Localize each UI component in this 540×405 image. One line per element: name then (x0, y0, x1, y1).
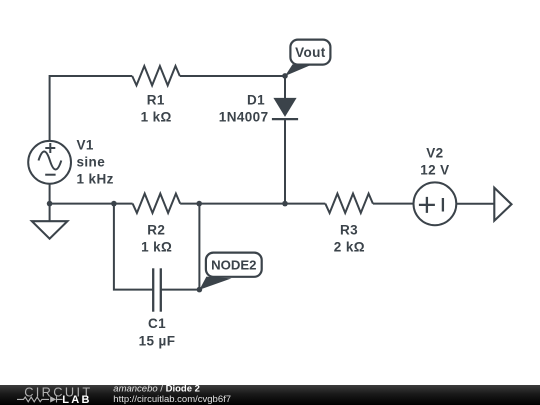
wire R3 to V2 (373, 203, 414, 205)
net label Vout callout (285, 40, 330, 76)
node junction dot left of R2 (111, 201, 117, 207)
voltage source V2 (414, 146, 457, 226)
svg-text:1 kHz: 1 kHz (77, 172, 114, 187)
svg-text:V1: V1 (77, 137, 94, 152)
svg-text:amancebo / Diode 2: amancebo / Diode 2 (113, 383, 200, 394)
svg-text:NODE2: NODE2 (211, 258, 256, 273)
svg-text:R1: R1 (147, 92, 165, 107)
svg-text:LAB: LAB (62, 394, 92, 405)
output port arrow (494, 188, 511, 221)
wire C1 branch left: down and right (114, 204, 153, 290)
svg-text:1N4007: 1N4007 (219, 110, 269, 125)
node junction dot right of R2 (196, 201, 202, 207)
node Vout junction dot (282, 73, 288, 79)
svg-text:D1: D1 (247, 92, 265, 107)
footer bar (0, 385, 540, 405)
svg-text:R2: R2 (147, 222, 165, 237)
wire top-left from V1 top up and right to R1 (50, 76, 133, 141)
resistor R1 (132, 66, 180, 125)
resistor R2 (133, 194, 181, 255)
svg-text:R3: R3 (340, 222, 358, 237)
svg-text:V2: V2 (426, 146, 443, 161)
node junction dot at D1 bottom (282, 201, 288, 207)
net label NODE2 callout (199, 253, 261, 290)
svg-text:12 V: 12 V (420, 163, 449, 178)
node junction dot at V1 bottom (47, 201, 53, 207)
svg-text:Vout: Vout (295, 45, 326, 60)
diode D1 (219, 76, 298, 204)
wire C1 right plate to NODE2 corner (161, 289, 200, 291)
wire R1 to Vout node (180, 75, 285, 77)
capacitor C1 (139, 268, 176, 348)
svg-text:sine: sine (77, 155, 106, 170)
CircuitLab logo resistor-diode glyph (17, 396, 63, 402)
wire NODE2 corner up to R2 right node (198, 204, 200, 290)
svg-text:15 µF: 15 µF (139, 333, 176, 348)
resistor R3 (325, 194, 373, 255)
svg-text:1 kΩ: 1 kΩ (141, 239, 172, 254)
wire middle from ground node to R2 left node (50, 203, 114, 205)
node NODE2 junction dot (197, 287, 203, 293)
ground (32, 204, 68, 239)
wire middle from R2 to R3 (180, 203, 325, 205)
wire V1 bottom to ground node (49, 184, 51, 204)
svg-text:1 kΩ: 1 kΩ (141, 110, 172, 125)
voltage source V1 (28, 137, 114, 186)
svg-text:http://circuitlab.com/cvgb6f7: http://circuitlab.com/cvgb6f7 (113, 394, 231, 405)
wire V2 to output port (456, 203, 494, 205)
svg-text:2 kΩ: 2 kΩ (334, 239, 365, 254)
svg-text:C1: C1 (148, 316, 166, 331)
wire R2 left lead (114, 203, 133, 205)
